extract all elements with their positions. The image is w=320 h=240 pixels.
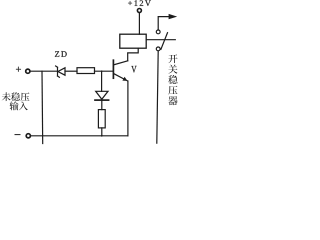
- label ZD: [55, 51, 59, 56]
- label minus input: [15, 134, 20, 136]
- wire junction to diode: [101, 71, 103, 91]
- arrowhead output: [169, 14, 178, 19]
- wire R1 to base: [95, 70, 113, 72]
- wire R2 to rail: [101, 128, 103, 136]
- terminal - input: [26, 134, 30, 138]
- label kaiguan wenyaqi (switching regulator): [168, 54, 177, 105]
- label plus input: [16, 67, 21, 72]
- contact bottom: [156, 47, 160, 51]
- terminal + input: [26, 69, 30, 73]
- node base junction: [101, 70, 103, 72]
- transistor V: [113, 60, 127, 81]
- wire diode to R2: [101, 101, 103, 110]
- contact top: [156, 30, 160, 34]
- wire bottom rail: [31, 135, 128, 137]
- wire left vertical: [41, 71, 44, 143]
- wire collector zigzag: [128, 48, 139, 61]
- wire emitter down: [127, 81, 129, 136]
- zener diode ZD: [56, 66, 65, 77]
- wire + rail: [31, 70, 57, 72]
- wire output: [158, 17, 172, 30]
- terminal +12V: [137, 9, 141, 13]
- label V: [131, 66, 136, 73]
- label +12V: [128, 1, 132, 5]
- diode VD: [95, 91, 109, 100]
- wire +12V to relay: [138, 13, 140, 34]
- node rail junction: [101, 135, 103, 137]
- label weiwenya shuru (unregulated input): [2, 92, 30, 110]
- switch blade: [161, 33, 168, 50]
- relay coil K: [120, 34, 146, 48]
- wire contact down: [157, 51, 158, 143]
- resistor R1: [77, 68, 95, 74]
- wire zener to R1: [65, 70, 77, 72]
- resistor R2: [98, 110, 105, 128]
- relay actuator link: [146, 39, 175, 41]
